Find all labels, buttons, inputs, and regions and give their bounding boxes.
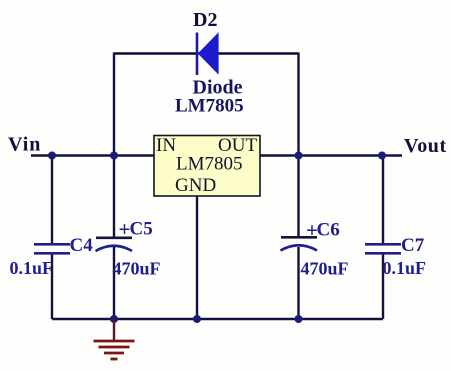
svg-text:470uF: 470uF [113, 259, 161, 279]
svg-text:Vout: Vout [404, 135, 447, 157]
node junction dot OUT-C6-topline [295, 152, 303, 160]
wire bottom ground rail [52, 318, 383, 320]
svg-text:0.1uF: 0.1uF [383, 258, 427, 278]
wire C5 branch upper lead [113, 156, 115, 239]
wire OUT net to Vout [260, 154, 402, 156]
svg-text:LM7805: LM7805 [176, 154, 243, 175]
node junction dot rail-C6 [295, 315, 303, 323]
wire C7 branch lower lead [382, 253, 384, 319]
node junction dot IN-C4 [48, 152, 56, 160]
wire C7 branch upper lead [382, 156, 384, 245]
wire C6 branch lower lead [297, 247, 299, 319]
wire left drop from top rail to IN net [113, 53, 115, 156]
capacitor C7 [365, 244, 401, 253]
svg-text:C7: C7 [401, 235, 425, 256]
ground [94, 319, 135, 359]
op-amp U1 LM7805 regulator box [154, 135, 260, 196]
svg-text:C6: C6 [317, 220, 340, 241]
wire right drop from top rail to OUT net [297, 53, 299, 156]
svg-text:LM7805: LM7805 [175, 95, 244, 116]
svg-text:Vin: Vin [8, 134, 41, 156]
svg-text:C4: C4 [70, 235, 94, 256]
capacitor C4 [34, 244, 70, 253]
wire C4 branch lower lead [51, 253, 53, 319]
wire C4 branch upper lead [51, 156, 53, 245]
svg-text:470uF: 470uF [301, 259, 349, 279]
svg-text:IN: IN [156, 135, 176, 156]
capacitor C5 polarized [96, 217, 133, 251]
svg-text:0.1uF: 0.1uF [10, 258, 54, 278]
capacitor C6 polarized [281, 218, 318, 251]
node junction dot rail-GNDpin [193, 315, 201, 323]
wire C6 branch upper lead [297, 156, 299, 238]
svg-text:D2: D2 [193, 9, 217, 31]
wire top rail [114, 52, 299, 54]
node junction dot OUT-C7 [378, 152, 386, 160]
svg-text:GND: GND [175, 175, 216, 196]
node junction dot IN-C5-topline [110, 152, 118, 160]
wire Vin input net [31, 154, 154, 156]
wire GND pin stub from U1 [196, 196, 198, 319]
node junction dot rail-ground [110, 315, 118, 323]
diode D2 [197, 32, 219, 75]
wire C5 branch lower lead [113, 247, 115, 319]
svg-text:C5: C5 [130, 219, 153, 240]
